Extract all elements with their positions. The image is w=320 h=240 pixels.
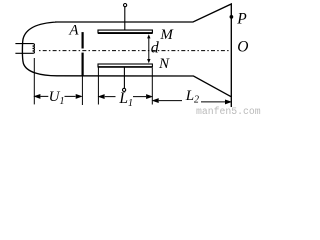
L2 dimension arrow right segment <box>201 100 231 104</box>
screen point P dot <box>230 15 234 19</box>
svg-text:P: P <box>236 11 247 28</box>
bottom terminal circle <box>123 88 126 91</box>
U1 dimension arrow right segment <box>65 95 82 99</box>
svg-text:O: O <box>237 38 248 55</box>
L2 dimension arrow left segment <box>153 99 182 103</box>
tube envelope <box>22 4 231 107</box>
plate M bottom thick edge <box>98 32 152 34</box>
plate M (top deflection plate) <box>98 30 152 33</box>
bottom plate lead wire <box>123 67 125 88</box>
svg-text:A: A <box>68 23 79 39</box>
gap arrow d down head <box>147 59 150 63</box>
plate right extension line <box>151 68 153 105</box>
L1 dimension arrow left segment <box>99 95 115 99</box>
svg-text:N: N <box>158 56 170 72</box>
plate left extension line <box>97 67 99 105</box>
anode bar A upper segment <box>81 32 83 48</box>
U1 dimension arrow left segment <box>35 95 48 99</box>
top terminal circle <box>124 4 127 7</box>
plate N bottom thick edge <box>98 66 152 68</box>
gap arrow d up head <box>147 34 150 38</box>
filament cathode heater <box>15 44 34 54</box>
anode bar A lower segment <box>81 53 83 76</box>
U1 left extension line (cathode) <box>33 58 35 104</box>
top plate lead wire <box>124 7 126 30</box>
plate N (bottom deflection plate) <box>98 64 152 67</box>
gap arrow d shaft <box>148 37 150 61</box>
svg-text:L1: L1 <box>118 90 133 109</box>
svg-text:manfen5.com: manfen5.com <box>196 106 261 117</box>
L1 dimension arrow right segment <box>133 95 152 99</box>
svg-text:d: d <box>151 40 160 57</box>
svg-text:M: M <box>159 27 174 43</box>
svg-text:U1: U1 <box>49 89 65 107</box>
axis center line <box>39 50 231 52</box>
svg-text:L2: L2 <box>185 88 199 106</box>
anode extension line <box>81 76 83 106</box>
